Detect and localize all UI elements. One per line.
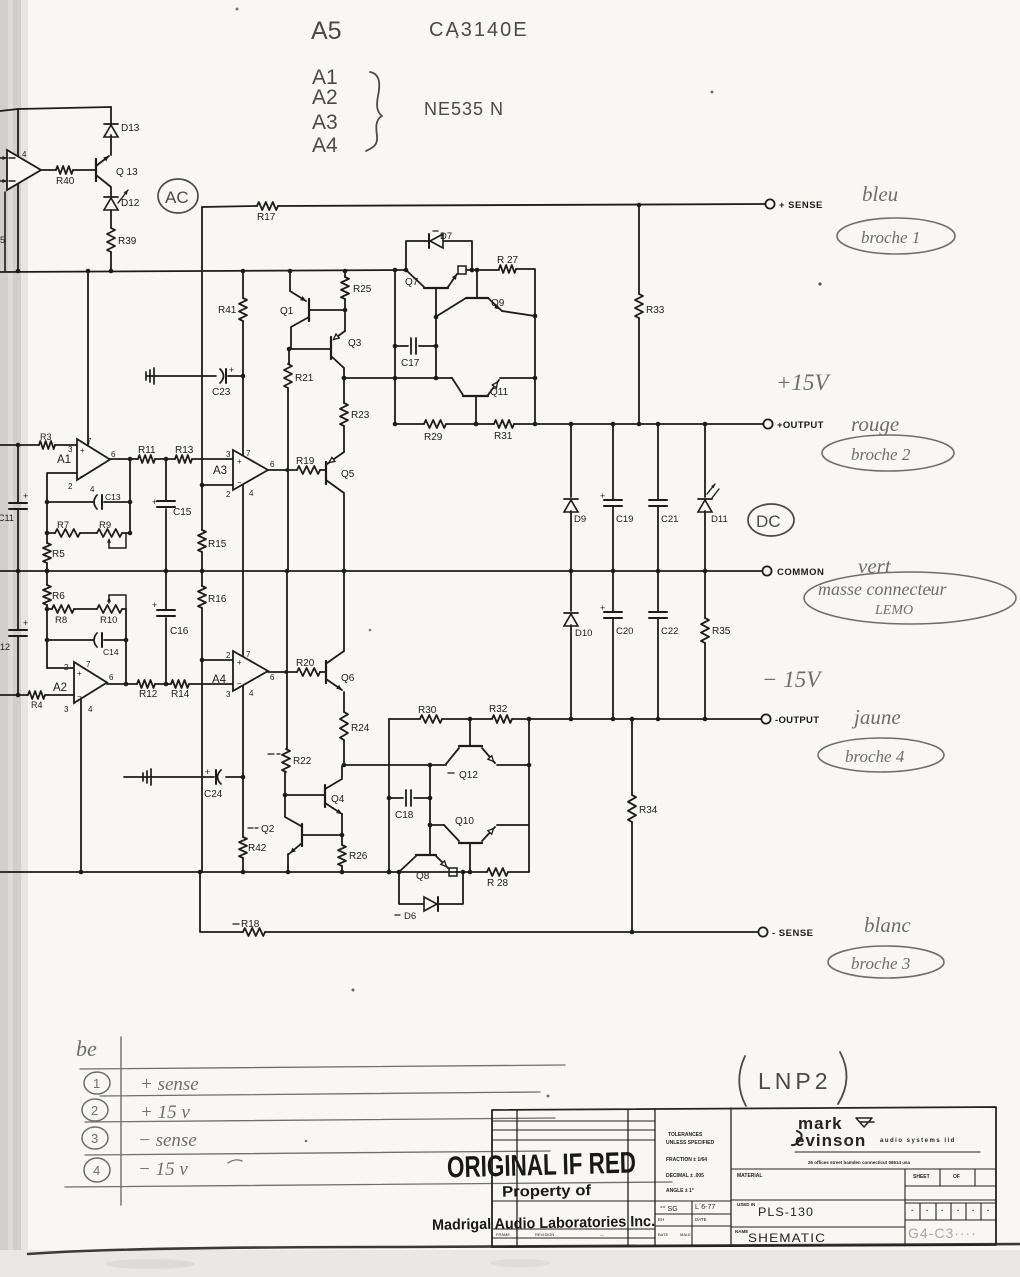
wire R27 corner: [516, 269, 535, 424]
transistor Q3: [331, 331, 362, 368]
resistor R40: [56, 166, 75, 187]
capacitor C16: [152, 571, 189, 684]
svg-text:R18: R18: [241, 919, 260, 930]
resistor R10 trimmer: [97, 595, 126, 626]
resistor R29: [424, 420, 446, 443]
resistor R6: [43, 585, 65, 605]
svg-text:MATERIAL: MATERIAL: [737, 1173, 762, 1179]
wire R4 line: [0, 694, 74, 696]
svg-text:R8: R8: [55, 615, 67, 626]
svg-text:R42: R42: [248, 843, 267, 854]
wire A2 fb right rail: [125, 609, 127, 684]
square node Q8: [449, 868, 457, 876]
resistor R30: [418, 705, 442, 723]
transistor Q7: [405, 270, 457, 317]
wire A1 out line: [110, 457, 233, 462]
svg-text:rouge: rouge: [851, 412, 899, 436]
op-amp A1: [57, 437, 116, 494]
svg-text:AC: AC: [165, 188, 189, 207]
svg-text:+: +: [237, 658, 242, 667]
svg-text:2: 2: [226, 651, 231, 660]
svg-text:D9: D9: [574, 514, 586, 525]
resistor R23: [340, 403, 370, 426]
terminal -OUTPUT: [761, 714, 819, 726]
wire Q7 base rail: [434, 315, 439, 381]
transistor Q6: [326, 651, 355, 712]
svg-text:+: +: [237, 457, 242, 466]
note A1: [312, 66, 338, 89]
svg-text:R20: R20: [296, 658, 315, 669]
resistor R19: [296, 456, 320, 474]
svg-text:C22: C22: [661, 626, 678, 637]
svg-text:DATE: DATE: [695, 1217, 707, 1222]
sheet cells: [905, 1203, 996, 1220]
title block left rows: [492, 1121, 655, 1140]
svg-text:broche 2: broche 2: [851, 445, 911, 464]
resistor R9 trimmer: [97, 520, 126, 548]
wire Q10 line: [428, 823, 444, 828]
svg-text:A2: A2: [53, 682, 67, 694]
resistor R41: [218, 298, 247, 321]
svg-text:R5: R5: [52, 549, 65, 560]
wire R40 to Q13: [73, 169, 96, 171]
tolerance box lines: [655, 1201, 731, 1246]
svg-text:R40: R40: [56, 176, 75, 187]
wire rail mid-left: [201, 207, 203, 872]
svg-text:SHEET: SHEET: [913, 1174, 930, 1180]
wire Q5-Q6 rail: [343, 571, 345, 651]
svg-text:·: ·: [972, 1206, 975, 1215]
op-amp A3: [213, 449, 275, 499]
wire R6 rail: [45, 569, 50, 668]
svg-text:R31: R31: [494, 431, 513, 442]
svg-text:5: 5: [0, 235, 5, 245]
wire C11 rail: [16, 443, 21, 698]
capacitor C21: [649, 424, 678, 571]
svg-text:UNLESS SPECIFIED: UNLESS SPECIFIED: [666, 1140, 714, 1146]
note A4: [312, 134, 338, 157]
wire R19 line: [268, 468, 326, 472]
capacitor C14: [94, 633, 119, 657]
svg-text:R24: R24: [351, 723, 370, 734]
svg-text:PLS-130: PLS-130: [758, 1205, 814, 1219]
svg-text:Q2: Q2: [261, 824, 275, 835]
wire C14 line: [47, 638, 128, 643]
svg-text:R 28: R 28: [487, 878, 509, 889]
capacitor C20: [600, 571, 633, 719]
wire rail R41-R42: [242, 271, 244, 872]
wire R26 to bus: [341, 866, 343, 872]
svg-text:R6: R6: [52, 591, 65, 602]
svg-text:R12: R12: [139, 689, 158, 700]
title block left tiny labels: [496, 1232, 604, 1237]
svg-text:− sense: − sense: [138, 1130, 197, 1151]
svg-text:R15: R15: [208, 539, 227, 550]
svg-text:−: −: [80, 472, 85, 481]
svg-text:Q11: Q11: [490, 387, 509, 398]
diode D9: [564, 424, 586, 571]
wire top loop: [0, 107, 111, 111]
note +15V: [776, 370, 832, 395]
resistor R31: [494, 420, 514, 442]
resistor R4: [28, 691, 45, 710]
svg-text:D7: D7: [440, 231, 452, 242]
resistor R5: [43, 543, 65, 563]
wire +output line: [395, 422, 763, 427]
note NE535N: [424, 99, 504, 119]
svg-text:D11: D11: [711, 514, 728, 525]
svg-text:D6: D6: [404, 911, 416, 922]
wire A3 pin2: [200, 483, 233, 488]
square node Q7: [458, 266, 466, 274]
terminal -SENSE: [758, 927, 813, 939]
wire R25 to Q3: [343, 299, 348, 331]
note A2: [312, 86, 338, 109]
svg-text:A1: A1: [57, 454, 71, 466]
resistor R22: [268, 749, 312, 772]
svg-text:broche 3: broche 3: [851, 954, 910, 973]
svg-text:NAME: NAME: [735, 1229, 748, 1234]
svg-text:4: 4: [249, 489, 254, 498]
svg-text:D12: D12: [121, 198, 140, 209]
svg-text:+15V: +15V: [776, 370, 832, 395]
svg-text:FRAME: FRAME: [496, 1232, 510, 1237]
wire R23 to Q5: [343, 426, 345, 452]
terminal COMMON: [762, 566, 824, 578]
note A5: [311, 17, 342, 45]
table row line 3: [85, 1118, 555, 1122]
wire -output line: [389, 717, 762, 722]
svg-text:R17: R17: [257, 212, 276, 223]
resistor R11: [138, 445, 156, 463]
logo address line: [795, 1152, 980, 1165]
wire Q3 base: [287, 347, 331, 352]
wire R21 to common: [287, 388, 289, 571]
svg-text:L´6-77: L´6-77: [695, 1204, 715, 1211]
svg-text:ANGLE ± 1°: ANGLE ± 1°: [666, 1188, 694, 1194]
svg-text:MALE: MALE: [680, 1232, 691, 1237]
wire R20 line: [268, 670, 326, 674]
svg-text:LEMO: LEMO: [874, 603, 913, 618]
resistor R12: [137, 680, 158, 700]
svg-text:FRACTION ± 1/64: FRACTION ± 1/64: [666, 1157, 707, 1163]
svg-text:+: +: [23, 618, 28, 628]
svg-text:NE535 N: NE535 N: [424, 99, 504, 119]
wire C17 left rail: [393, 270, 398, 426]
wire A1 fb right rail: [129, 459, 131, 533]
svg-text:Property of: Property of: [502, 1182, 592, 1201]
resistor R24: [340, 712, 370, 740]
table row line 2: [100, 1092, 540, 1096]
note jaune: [851, 705, 901, 729]
note +15v row: [140, 1102, 190, 1123]
wire Q4 base: [285, 794, 325, 796]
svg-text:7: 7: [87, 437, 92, 446]
circled 4: [84, 1158, 110, 1182]
note blanc: [864, 913, 911, 937]
wire R24 to node: [343, 740, 345, 765]
resistor R8: [52, 605, 74, 626]
transistor Q11: [452, 376, 537, 424]
title block frame: [492, 1107, 996, 1247]
svg-text:- SENSE: - SENSE: [772, 928, 814, 939]
svg-text:BATE: BATE: [658, 1232, 668, 1237]
wire A5 lower stub: [0, 192, 5, 271]
resistor R14: [171, 680, 190, 700]
stamp ORIGINAL IF RED: [447, 1146, 637, 1184]
note A3: [312, 111, 338, 134]
tolerance box text: [666, 1132, 714, 1194]
resistor R3: [39, 432, 55, 449]
svg-text:R23: R23: [351, 410, 370, 421]
note broche 3: [828, 946, 944, 978]
table row line 5: [65, 1182, 672, 1187]
svg-text:Q9: Q9: [491, 298, 505, 309]
transistor Q2: [248, 795, 342, 872]
svg-text:C23: C23: [212, 387, 231, 398]
transistor Q5: [326, 452, 355, 571]
svg-text:+ SENSE: + SENSE: [779, 200, 823, 211]
svg-text:Q4: Q4: [331, 794, 345, 805]
wire C18 left rail: [387, 719, 392, 874]
svg-text:·: ·: [941, 1206, 944, 1215]
svg-text:+ sense: + sense: [140, 1074, 199, 1095]
diode D7: [406, 231, 474, 272]
svg-text:G4-C3····: G4-C3····: [908, 1225, 977, 1241]
wire A2 out line: [107, 682, 233, 687]
svg-text:COMMON: COMMON: [777, 567, 824, 578]
svg-text:CA3140E: CA3140E: [429, 19, 529, 41]
circled AC: [158, 179, 198, 213]
svg-text:LNP2: LNP2: [758, 1068, 832, 1094]
svg-text:R14: R14: [171, 689, 190, 700]
resistor R18: [233, 919, 265, 936]
svg-text:Q7: Q7: [405, 277, 419, 288]
resistor R28: [487, 868, 509, 889]
wire Q4-Q2 node: [340, 833, 345, 845]
svg-text:2: 2: [226, 490, 231, 499]
svg-text:Q 13: Q 13: [116, 167, 138, 178]
svg-text:R33: R33: [646, 305, 665, 316]
svg-text:2: 2: [68, 482, 73, 491]
svg-text:7: 7: [246, 650, 251, 659]
transistor Q13: [96, 135, 138, 197]
svg-text:C17: C17: [401, 358, 420, 369]
specks: [236, 8, 932, 1143]
capacitor C23: [146, 365, 245, 398]
capacitor C11: [0, 491, 28, 523]
capacitor C13: [94, 492, 121, 509]
note -sense row: [138, 1130, 197, 1151]
svg-text:Q12: Q12: [459, 770, 478, 781]
svg-text:C14: C14: [103, 647, 119, 657]
svg-text:Q10: Q10: [455, 816, 474, 827]
note rouge: [851, 412, 899, 436]
svg-text:broche 1: broche 1: [861, 228, 920, 247]
resistor R21: [284, 364, 314, 388]
svg-text:—: —: [600, 1232, 604, 1237]
svg-text:+ 15 v: + 15 v: [140, 1102, 190, 1123]
wire A4 pin2: [200, 658, 233, 663]
resistor R42: [239, 837, 267, 858]
resistor R15: [198, 530, 227, 552]
resistor R25: [341, 277, 372, 299]
svg-text:+OUTPUT: +OUTPUT: [777, 420, 824, 431]
svg-text:−: −: [237, 679, 242, 688]
svg-text:4: 4: [22, 150, 27, 159]
svg-text:REVISION: REVISION: [535, 1232, 554, 1237]
wire R22 to Q2 node: [283, 772, 288, 797]
svg-text:6: 6: [111, 450, 116, 459]
tolerance box entries: [658, 1204, 715, 1237]
svg-text:R 27: R 27: [497, 255, 519, 266]
svg-text:R25: R25: [353, 284, 372, 295]
capacitor C18: [389, 790, 430, 821]
svg-text:4: 4: [249, 689, 254, 698]
svg-text:R41: R41: [218, 305, 237, 316]
wire +sense line: [202, 203, 769, 208]
brace: [366, 72, 382, 151]
svg-text:C24: C24: [204, 789, 223, 800]
resistor R32: [489, 704, 512, 723]
note CA3140E: [429, 19, 529, 41]
resistor R26: [338, 845, 368, 866]
svg-text:C18: C18: [395, 810, 414, 821]
svg-text:C11: C11: [0, 513, 14, 523]
svg-text:3: 3: [91, 1131, 98, 1146]
svg-text:R13: R13: [175, 445, 194, 456]
svg-text:audio systems lld: audio systems lld: [880, 1138, 956, 1144]
capacitor C22: [649, 571, 678, 719]
svg-text:35 offices street hamden con: 35 offices street hamden connecticut 065…: [808, 1160, 911, 1165]
svg-text:1: 1: [93, 1076, 100, 1091]
note broche 2: [822, 435, 954, 471]
svg-text:C13: C13: [105, 492, 121, 502]
wire R7 line: [45, 531, 133, 536]
wire Q12 line: [342, 763, 532, 768]
note masse connecteur LEMO: [804, 572, 1016, 624]
scanner edge band left: [0, 0, 28, 1277]
resistor R34: [628, 717, 658, 935]
note +sense row: [140, 1074, 199, 1095]
svg-text:R29: R29: [424, 432, 443, 443]
circled DC: [748, 504, 794, 536]
svg-text:7: 7: [246, 449, 251, 458]
transistor Q8: [399, 855, 448, 882]
diode D12: [104, 197, 140, 210]
note -15V: [762, 667, 823, 692]
table row line 4: [85, 1151, 550, 1155]
svg-text:blanc: blanc: [864, 913, 911, 937]
svg-text:A4: A4: [212, 674, 227, 686]
svg-text:R11: R11: [138, 445, 156, 456]
transistor Q9: [437, 270, 537, 318]
paper bottom edge: [0, 1244, 1020, 1277]
svg-text:− 15V: − 15V: [762, 667, 823, 692]
svg-text:3: 3: [68, 445, 73, 454]
wire Q9 right rail btm: [528, 719, 530, 872]
transistor Q12: [446, 719, 495, 781]
svg-text:+: +: [600, 603, 605, 613]
svg-text:R26: R26: [349, 851, 368, 862]
wire left rail A5: [17, 109, 19, 271]
diode D10: [564, 571, 592, 719]
wire A2 pin4 drop: [80, 698, 82, 872]
svg-text:R4: R4: [31, 700, 43, 710]
svg-text:C20: C20: [616, 626, 633, 637]
svg-text:Q3: Q3: [348, 338, 362, 349]
svg-text:R35: R35: [712, 626, 731, 637]
svg-text:+: +: [152, 497, 157, 507]
transistor Q1: [280, 271, 345, 349]
svg-text:bleu: bleu: [862, 182, 898, 206]
svg-text:+: +: [205, 767, 210, 777]
svg-text:Q6: Q6: [341, 673, 355, 684]
faint drawing number: [908, 1225, 977, 1241]
wire R39 to bus: [110, 252, 112, 271]
op-amp A4: [212, 650, 275, 699]
svg-text:·: ·: [911, 1206, 914, 1215]
table col line: [120, 1037, 122, 1205]
svg-text:3: 3: [64, 705, 69, 714]
svg-text:C19: C19: [616, 514, 633, 525]
svg-text:C15: C15: [173, 507, 192, 518]
svg-text:Q5: Q5: [341, 469, 355, 480]
wire R25 stub: [344, 271, 346, 277]
svg-text:R3: R3: [40, 432, 52, 442]
svg-text:ORIGINAL IF RED: ORIGINAL IF RED: [447, 1146, 637, 1184]
table row line 1: [80, 1065, 565, 1069]
svg-text:·: ·: [926, 1206, 929, 1215]
svg-text:DECIMAL ± .005: DECIMAL ± .005: [666, 1173, 704, 1179]
svg-text:USED IN: USED IN: [737, 1202, 755, 1207]
wire A1 pin2 rail: [47, 473, 77, 571]
svg-text:DC: DC: [756, 512, 781, 531]
svg-text:EH: EH: [658, 1217, 664, 1222]
svg-text:°° SG: °° SG: [660, 1205, 678, 1213]
resistor R39: [107, 228, 137, 252]
svg-text:R10: R10: [100, 615, 117, 626]
op-amp A5: [0, 150, 56, 190]
svg-text:12: 12: [0, 642, 10, 652]
svg-text:4: 4: [93, 1163, 100, 1178]
LED D11: [698, 424, 728, 571]
svg-text:Q1: Q1: [280, 306, 294, 317]
svg-text:R32: R32: [489, 704, 508, 715]
wire top bus: [0, 268, 408, 274]
stamp Madrigal: [432, 1213, 655, 1234]
svg-text:4: 4: [88, 705, 93, 714]
svg-text:4: 4: [90, 485, 95, 494]
transistor Q10: [444, 816, 529, 872]
svg-text:D10: D10: [575, 628, 592, 639]
svg-text:+: +: [80, 446, 85, 455]
transistor Q4: [325, 766, 345, 835]
wire mid cross line: [342, 376, 452, 381]
op-amp A2: [53, 660, 114, 714]
svg-text:D13: D13: [121, 123, 140, 134]
note LNP2: [739, 1052, 846, 1106]
circled 3: [82, 1127, 108, 1149]
resistor R7: [55, 520, 80, 537]
svg-text:R39: R39: [118, 236, 137, 247]
svg-text:− 15 v: − 15 v: [138, 1159, 188, 1180]
wire Q3 to R23: [342, 368, 347, 403]
svg-text:R9: R9: [99, 520, 111, 531]
svg-text:A3: A3: [213, 465, 227, 477]
sheet box: [905, 1169, 996, 1246]
wire bottom bus: [0, 870, 529, 875]
